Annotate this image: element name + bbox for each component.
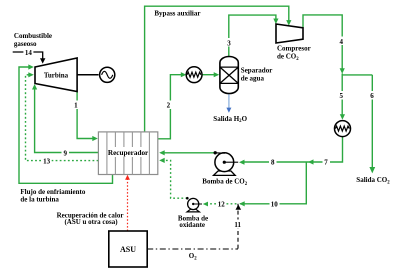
svg-text:(ASU u otra cosa): (ASU u otra cosa) bbox=[64, 218, 118, 226]
svg-text:Salida CO2: Salida CO2 bbox=[356, 176, 390, 185]
svg-text:Turbina: Turbina bbox=[44, 71, 69, 79]
svg-text:Bypass auxiliar: Bypass auxiliar bbox=[154, 9, 200, 17]
svg-text:Separador: Separador bbox=[241, 66, 272, 74]
svg-text:8: 8 bbox=[271, 159, 275, 167]
svg-text:2: 2 bbox=[167, 102, 171, 110]
svg-text:de CO2: de CO2 bbox=[277, 53, 299, 62]
svg-text:11: 11 bbox=[234, 221, 241, 229]
svg-text:Salida H2O: Salida H2O bbox=[213, 115, 247, 124]
svg-text:oxidante: oxidante bbox=[179, 221, 205, 229]
svg-text:4: 4 bbox=[340, 38, 344, 46]
svg-text:12: 12 bbox=[218, 201, 226, 209]
svg-text:de la turbina: de la turbina bbox=[20, 196, 59, 204]
svg-text:6: 6 bbox=[370, 92, 374, 100]
svg-text:1: 1 bbox=[74, 102, 78, 110]
svg-text:13: 13 bbox=[43, 157, 51, 165]
svg-text:gaseoso: gaseoso bbox=[14, 40, 37, 48]
svg-text:Compresor: Compresor bbox=[277, 44, 311, 52]
svg-text:7: 7 bbox=[324, 159, 328, 167]
svg-text:Bomba de CO2: Bomba de CO2 bbox=[202, 178, 247, 187]
svg-text:14: 14 bbox=[25, 49, 33, 57]
svg-text:de agua: de agua bbox=[241, 74, 265, 82]
svg-text:Combustible: Combustible bbox=[14, 32, 52, 40]
svg-text:ASU: ASU bbox=[120, 245, 136, 254]
svg-text:3: 3 bbox=[227, 39, 231, 47]
svg-text:9: 9 bbox=[63, 149, 67, 157]
svg-text:Recuperador: Recuperador bbox=[108, 149, 149, 157]
svg-text:10: 10 bbox=[271, 201, 279, 209]
svg-text:5: 5 bbox=[340, 92, 344, 100]
